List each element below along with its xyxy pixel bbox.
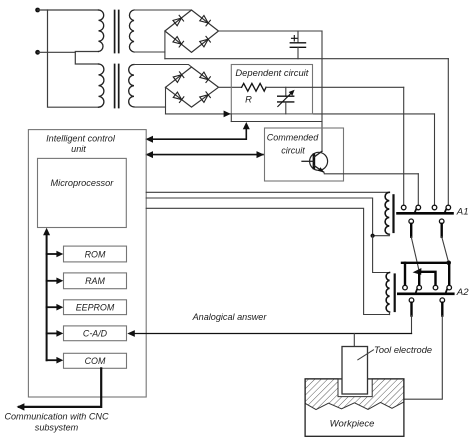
transformer T1 core: [115, 11, 119, 53]
wire BR2 plus output into resistor: [219, 86, 242, 88]
diode bridge BR1 outline: [165, 10, 219, 52]
svg-text:Workpiece: Workpiece: [330, 419, 375, 430]
label C-A/D: [83, 329, 108, 339]
contact A2 armature bar: [398, 292, 453, 295]
wire T2 secondary bottom to BR2 left leg: [134, 106, 166, 108]
intelligent control unit box: [28, 130, 146, 397]
bus branch to RAM: [47, 278, 64, 285]
COM box: [64, 353, 127, 368]
label Commended circuit: [267, 133, 320, 156]
workpiece hatched body: [305, 379, 404, 410]
svg-text:A1: A1: [456, 207, 469, 218]
wire BR1 plus output to collector drop: [219, 30, 323, 32]
internal bus vertical with up arrow: [43, 228, 50, 360]
tool electrode body: [342, 347, 368, 395]
control arrow line to dependent circuit: [146, 122, 250, 143]
wire vertical left bus to T2 primary bottom: [48, 10, 99, 107]
svg-text:COM: COM: [85, 356, 106, 366]
transformer T1 primary winding: [99, 10, 104, 51]
wire T1 secondary top to bridge BR1: [134, 9, 192, 11]
wire node to transistor collector line: [231, 121, 322, 123]
actuator drop to A2 pin4: [448, 263, 450, 285]
wire resistor output to contact A1 pin1 drop: [266, 86, 404, 88]
label RAM: [85, 276, 105, 286]
RAM box: [64, 273, 127, 289]
contact A2 pin circles: [403, 285, 452, 290]
wire collector drop from C1 line to transistor Q1: [321, 31, 323, 151]
wire from top terminal to transformer T1 primary: [38, 9, 99, 11]
resistor R zigzag: [242, 83, 266, 91]
variable capacitor C2 arrow: [278, 90, 295, 107]
label EEPROM: [76, 303, 115, 313]
contact A2 lower circles: [409, 298, 444, 303]
relay coil K2 winding: [386, 273, 389, 312]
wire branch to tool electrode: [353, 334, 355, 347]
svg-text:Analogical answer: Analogical answer: [192, 312, 268, 322]
svg-text:Communication with CNC: Communication with CNC: [4, 411, 109, 421]
wire rail2 drop to A1 pin3: [434, 114, 436, 205]
svg-text:ROM: ROM: [85, 249, 106, 259]
diode BR2 D1 top-left: [173, 72, 184, 83]
workpiece outer box: [305, 379, 404, 436]
diode BR2 D3 bottom-left: [173, 92, 184, 103]
capacitor C1 negative lead: [297, 47, 299, 58]
svg-text:Microprocessor: Microprocessor: [51, 178, 115, 188]
actuator bar with dot: [402, 261, 451, 266]
contact A1 lower circles: [409, 219, 444, 224]
svg-text:Intelligent control: Intelligent control: [46, 133, 116, 143]
transistor Q1: [302, 151, 328, 172]
wire A2 right contact down to workpiece: [404, 316, 442, 400]
label ROM: [85, 249, 106, 259]
transformer T2 secondary winding: [129, 65, 134, 107]
wire K1 bottom to junction dot: [373, 234, 390, 235]
contact A1 armature bar: [398, 212, 453, 215]
relay coil K2 core: [394, 275, 396, 312]
wire A2 left contact down to analog line: [411, 316, 413, 334]
commended circuit box: [265, 128, 344, 181]
diode BR2 D2 top-right: [200, 72, 211, 83]
microprocessor box U1: [38, 158, 127, 227]
linkage diagonal left: [411, 237, 419, 271]
contact A2 hooks: [415, 289, 447, 294]
label Dependent circuit: [235, 67, 308, 78]
wire T1 primary bottom to junction: [75, 52, 98, 65]
contact A1 hooks: [414, 209, 446, 213]
label Workpiece: [330, 419, 375, 430]
bus branch to C-A/D: [47, 330, 64, 337]
wire T1 secondary bottom to BR1 left leg: [134, 51, 165, 53]
transformer T2 core: [115, 65, 119, 108]
contact A1 lower stubs: [411, 224, 442, 237]
diode bridge BR2 outline: [166, 67, 219, 107]
wire control line 3 to relay coil K2 bottom: [146, 208, 389, 314]
variable capacitor C2 top lead: [285, 87, 287, 96]
svg-text:unit: unit: [71, 144, 86, 154]
wire T2 secondary top to bridge BR2: [134, 65, 192, 68]
variable capacitor C2 plates: [278, 96, 294, 102]
svg-text:Dependent circuit: Dependent circuit: [235, 67, 308, 78]
wire BR2 plus drop to A1 pin1: [403, 87, 405, 205]
label R: [245, 94, 252, 105]
node terminal dot bottom: [35, 50, 40, 55]
relay coil K1 winding: [385, 192, 389, 234]
label A1: [456, 207, 469, 218]
wire emitter drop to A1 pin2: [417, 174, 419, 205]
diode BR1 D2 top-right: [200, 15, 211, 26]
label Communication with CNC subsystem: [4, 411, 109, 432]
capacitor C1 positive lead: [297, 31, 299, 43]
wire minus rail of BR1 to contact A1 pin4: [165, 58, 448, 60]
contact A2 lower stubs: [412, 303, 443, 316]
wire BR2 left vertex down to minus rail 2: [165, 87, 167, 114]
junction dot K1-K2: [371, 234, 375, 238]
tool electrode leader line: [358, 350, 374, 360]
wire K2 bottom stub: [389, 312, 391, 315]
bus branch to ROM: [47, 251, 64, 258]
wire junction down to relay coil K2 top: [373, 236, 390, 273]
diode BR1 D3 bottom-left: [173, 36, 184, 47]
EEPROM box: [64, 300, 127, 315]
actuator bridge to A2 pins 2-3: [419, 272, 435, 285]
actuator drop to A2 pin1: [404, 263, 406, 285]
label Microprocessor: [51, 178, 115, 188]
diode BR1 D4 bottom-right: [200, 36, 211, 47]
wire from bottom terminal right: [38, 51, 76, 53]
node terminal dot top: [35, 8, 40, 13]
transformer T2 primary winding: [99, 64, 104, 107]
label Intelligent control unit: [46, 133, 116, 153]
wire minus rail 2 to contact A1 pin3: [166, 113, 435, 115]
svg-text:C-A/D: C-A/D: [83, 329, 108, 339]
ROM box: [64, 246, 127, 262]
linkage arrowhead: [413, 268, 422, 275]
wire control line 2 to coil junction: [146, 198, 372, 236]
label Tool electrode: [374, 345, 432, 355]
diode BR2 D4 bottom-right: [200, 92, 211, 103]
transformer T1 secondary winding: [129, 10, 134, 52]
dependent circuit box: [231, 65, 312, 114]
label Analogical answer: [192, 312, 268, 322]
wire control line 1 to relay coil K1 top: [146, 191, 389, 193]
svg-text:EEPROM: EEPROM: [76, 303, 115, 313]
C-A/D box: [64, 326, 127, 341]
wire BR1 left vertex down to minus rail: [164, 31, 166, 59]
label A2: [456, 287, 469, 298]
variable capacitor C2 bottom lead: [285, 102, 287, 114]
control arrow line to commended circuit: [146, 151, 265, 158]
diode BR1 D1 top-left: [173, 15, 184, 26]
analogical answer wire with arrow into C-A/D: [127, 330, 411, 337]
svg-text:RAM: RAM: [85, 276, 105, 286]
dependent box left edge extension: [230, 114, 232, 122]
wire emitter to contact A1 pin2: [324, 172, 418, 173]
svg-text:Commended: Commended: [267, 133, 320, 143]
svg-text:subsystem: subsystem: [35, 422, 79, 432]
contact A1 pin circles: [401, 205, 450, 210]
label COM: [85, 356, 106, 366]
relay coil K1 core: [392, 195, 394, 232]
svg-text:A2: A2: [456, 287, 469, 298]
arrowhead on rail into dependent box corner: [224, 111, 231, 118]
linkage diagonal right: [442, 237, 449, 263]
svg-text:circuit: circuit: [281, 145, 305, 155]
capacitor C1 plates: [290, 43, 305, 48]
svg-text:R: R: [245, 94, 252, 105]
COM to CNC arrow: [17, 368, 102, 410]
capacitor C1 polarity plus sign: [292, 36, 298, 41]
wire rail1 drop to A1 pin4: [447, 59, 449, 206]
svg-text:Tool electrode: Tool electrode: [374, 345, 432, 355]
bus branch to COM: [47, 357, 64, 364]
bus branch to EEPROM: [47, 304, 64, 311]
